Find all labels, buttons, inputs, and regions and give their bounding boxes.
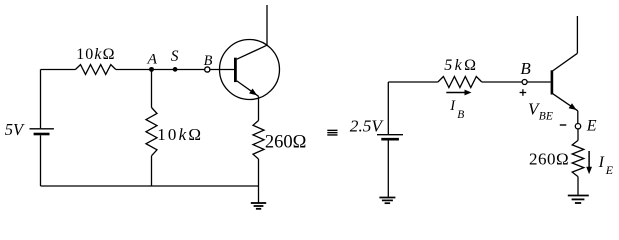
- svg-text:260Ω: 260Ω: [265, 132, 307, 152]
- svg-text:5V: 5V: [5, 120, 25, 139]
- svg-text:BE: BE: [539, 110, 553, 122]
- svg-text:10kΩ: 10kΩ: [157, 125, 203, 144]
- svg-text:E: E: [605, 163, 614, 177]
- svg-text:10kΩ: 10kΩ: [76, 46, 115, 63]
- svg-text:B: B: [204, 53, 213, 69]
- svg-text:B: B: [520, 59, 531, 78]
- svg-text:2.5V: 2.5V: [350, 116, 385, 135]
- svg-text:E: E: [586, 117, 597, 134]
- svg-text:B: B: [457, 109, 464, 121]
- svg-text:I: I: [598, 154, 605, 171]
- svg-text:S: S: [171, 48, 179, 65]
- svg-text:A: A: [146, 52, 157, 68]
- svg-text:260Ω: 260Ω: [529, 149, 569, 168]
- svg-text:I: I: [449, 98, 456, 114]
- svg-text:5kΩ: 5kΩ: [444, 57, 478, 74]
